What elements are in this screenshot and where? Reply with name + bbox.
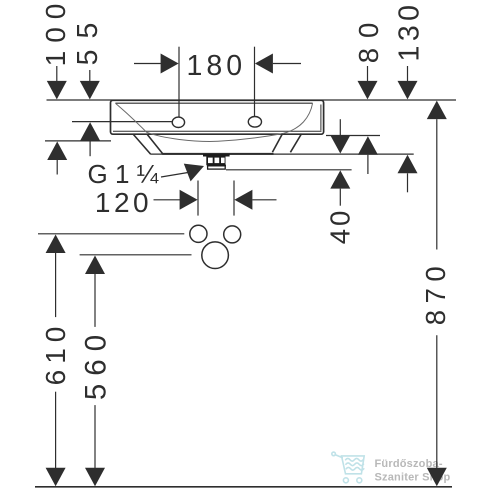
basin rim inner bottom line [113, 130, 322, 132]
560 line upper segment [94, 274, 96, 327]
reference line L4 bowl bottom / 130-level [150, 153, 413, 155]
dimension line 80 lower with up arrow [358, 136, 378, 155]
reference line L6 610 level [38, 233, 184, 235]
reference line L7 560 level [80, 254, 192, 256]
870 line upper segment [436, 119, 438, 249]
wall hole circle right [224, 226, 241, 243]
870 down arrow at floor [427, 468, 447, 487]
180 extension line left [178, 47, 180, 117]
under-bowl left diagonal 1 [133, 134, 151, 154]
drain bottom cap [208, 166, 226, 169]
basin rim outline [111, 100, 324, 134]
drain thread window 1 [208, 158, 213, 164]
120 left arrow pointing right [154, 199, 182, 201]
svg-text:180: 180 [187, 50, 247, 82]
watermark text [375, 458, 451, 483]
basin rim inner right line [320, 105, 322, 131]
560 down arrow at floor [85, 468, 105, 487]
610 line lower segment [55, 392, 57, 469]
180 left arrow [134, 63, 162, 65]
drain flange [203, 154, 230, 157]
dimension line 130 lower with up arrow [398, 155, 418, 174]
svg-text:40: 40 [325, 208, 356, 245]
610 line upper segment [55, 253, 57, 317]
reference line L2 hole level [72, 121, 172, 123]
svg-text:130: 130 [393, 0, 425, 61]
dimension line 80 upper with down arrow [367, 66, 369, 82]
wall hole circle bottom large [202, 242, 229, 269]
610 down arrow at floor [46, 468, 66, 487]
G 1 1/4 leader line [161, 173, 188, 178]
basin rim inner top line [115, 102, 312, 104]
under-bowl left diagonal 2 [147, 134, 163, 154]
dimension line 130 upper with down arrow [407, 66, 409, 82]
faucet hole right ellipse [248, 117, 261, 128]
bowl interior curve left [115, 103, 282, 141]
drain thread window 2 [215, 158, 220, 164]
dimension line 100 upper with down arrow [56, 66, 58, 82]
svg-text:100: 100 [40, 0, 71, 66]
bowl bottom face thick segment [162, 153, 273, 155]
560 line lower segment [94, 405, 96, 468]
G 1 1/4 leader arrowhead [184, 164, 204, 182]
dimension line 100 lower with up arrow [47, 142, 67, 161]
faucet hole left ellipse [172, 117, 184, 127]
svg-text:870: 870 [420, 260, 451, 325]
120 extension line right [233, 181, 235, 216]
120 right arrow pointing left [234, 190, 252, 210]
40 lower line with up arrow [330, 170, 350, 188]
svg-text:80: 80 [353, 13, 384, 64]
drain thread window 3 [221, 158, 225, 164]
reference line L3L bowl-inner-bottom level [45, 140, 111, 142]
under-bowl right diagonal 1 [272, 134, 282, 153]
reference line L3R 80-level [326, 135, 380, 137]
watermark cart icon [332, 452, 364, 483]
floor line [35, 486, 452, 488]
dimension line 55 upper with down arrow [89, 70, 91, 82]
560 up arrow at L7 [85, 256, 105, 275]
bowl interior curve right [283, 103, 313, 133]
180 extension line right [254, 47, 256, 116]
40 upper line with down arrow [339, 119, 341, 136]
wall hole circle left [190, 225, 207, 242]
870 up arrow at top [427, 101, 447, 120]
870 line lower segment [436, 335, 438, 468]
svg-text:G 1 ¼: G 1 ¼ [88, 159, 159, 189]
120 extension line left [197, 181, 199, 216]
dimension line 55 lower with up arrow [80, 122, 100, 141]
under-bowl right diagonal 2 [290, 134, 301, 153]
180 right arrow [255, 54, 273, 74]
drain threaded body [206, 156, 225, 165]
svg-text:560: 560 [79, 327, 112, 400]
reference line L5 drain-end level [226, 169, 352, 171]
drain cap top thick edge [207, 165, 226, 167]
svg-text:610: 610 [40, 321, 71, 386]
610 up arrow at L6 [46, 235, 66, 254]
svg-text:120: 120 [95, 187, 152, 218]
reference line L1 rim-top level [47, 99, 457, 101]
svg-text:55: 55 [72, 12, 104, 66]
